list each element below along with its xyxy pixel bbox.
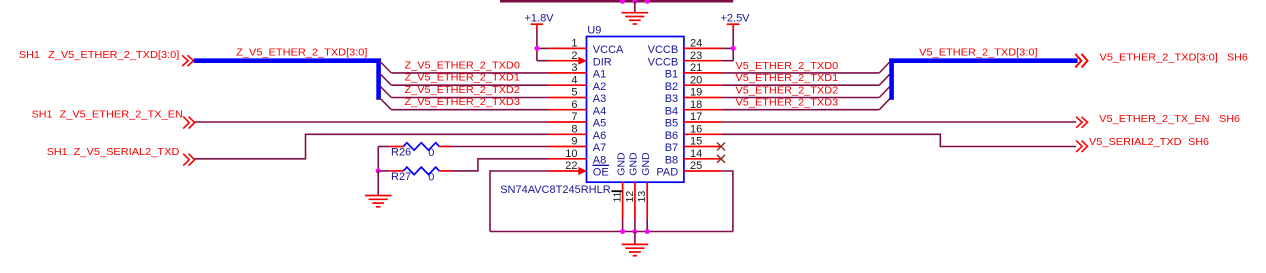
junction dot top-right (645, 0, 650, 4)
bus label Z_V5_ETHER_2_TXD[3:0] (236, 46, 367, 58)
U9 pin 10 A8 (549, 148, 607, 167)
junction dot bottom-left (620, 229, 625, 234)
wire Z_V5_SERIAL2_TXD (195, 134, 549, 159)
wire GND net top (500, 0, 733, 3)
U9 pin 9 A7 (549, 136, 607, 155)
wire R26 left lead (378, 146, 390, 148)
U9 pin 21 B1 (665, 62, 722, 81)
svg-text:B6: B6 (665, 130, 678, 142)
svg-text:A1: A1 (593, 69, 606, 81)
wire +2.5V vertical (732, 30, 734, 61)
wire Z_V5_ETHER_2_TXD2 (bus entry to pin 5) (379, 84, 548, 98)
U9 pin 22 OE (549, 160, 610, 179)
svg-text:8: 8 (571, 123, 577, 135)
junction dot R27 node (376, 168, 381, 173)
op-amp U9 body (IC box) (587, 37, 684, 183)
svg-text:5: 5 (571, 87, 577, 99)
svg-text:B7: B7 (665, 142, 678, 154)
wire R27 left lead (378, 170, 390, 172)
svg-text:12: 12 (624, 191, 636, 203)
svg-text:VCCB: VCCB (648, 56, 679, 68)
junction dot bottom-right (645, 229, 650, 234)
svg-text:A2: A2 (593, 81, 606, 93)
svg-text:SH1: SH1 (47, 146, 68, 158)
svg-text:22: 22 (565, 160, 577, 172)
U9 pin 1 VCCA (549, 38, 625, 57)
wire R27 to pin 10 (452, 159, 549, 171)
bus V5_ETHER_2_TXD[3:0] right horizontal (889, 58, 1077, 63)
svg-text:A5: A5 (593, 118, 606, 130)
svg-text:B2: B2 (665, 81, 678, 93)
junction dot top-left (620, 0, 625, 4)
off-page connector SH1 Z_V5_ETHER_2_TX_EN (32, 109, 195, 129)
junction dot top-middle (632, 0, 637, 4)
svg-text:V5_ETHER_2_TX_EN: V5_ETHER_2_TX_EN (1099, 113, 1209, 125)
bus Z_V5_ETHER_2_TXD[3:0] left horizontal (194, 58, 381, 63)
svg-text:SH6: SH6 (1219, 113, 1240, 125)
bus label V5_ETHER_2_TXD[3:0] right (919, 46, 1037, 58)
svg-text:Z_V5_SERIAL2_TXD: Z_V5_SERIAL2_TXD (74, 146, 180, 158)
svg-text:R27: R27 (391, 171, 411, 183)
wire +1.8V vertical (536, 30, 538, 61)
svg-text:6: 6 (571, 99, 577, 111)
svg-text:R26: R26 (391, 147, 411, 159)
svg-text:+1.8V: +1.8V (524, 12, 554, 24)
U9 pin 12 GND (bottom) (624, 152, 640, 232)
svg-text:V5_SERIAL2_TXD: V5_SERIAL2_TXD (1089, 136, 1182, 148)
svg-text:V5_ETHER_2_TXD2: V5_ETHER_2_TXD2 (736, 84, 839, 96)
wire R26-R27 vertical (377, 147, 379, 172)
svg-text:3: 3 (571, 62, 577, 74)
wire R26 to pin 9 (452, 146, 549, 148)
U9 pin 24 VCCB (648, 38, 722, 57)
svg-text:SH1: SH1 (19, 49, 40, 61)
svg-text:1: 1 (571, 38, 577, 50)
wire ground stem top (634, 1, 636, 12)
svg-text:OE: OE (593, 167, 609, 179)
junction dot +2.5V node (731, 46, 736, 51)
svg-text:SH6: SH6 (1227, 51, 1248, 63)
svg-text:DIR: DIR (593, 56, 612, 68)
junction dot bottom-middle (632, 229, 637, 234)
U9 pin 2 DIR (549, 50, 612, 69)
bus V5_ETHER_2_TXD[3:0] right vertical (889, 58, 894, 99)
svg-text:GND: GND (628, 152, 640, 176)
svg-text:GND: GND (640, 152, 652, 176)
svg-text:10: 10 (565, 148, 577, 160)
U9 pin 20 B2 (665, 74, 722, 93)
svg-text:7: 7 (571, 111, 577, 123)
wire V5_ETHER_2_TXD3 (pin 18 to bus) (721, 97, 891, 110)
svg-text:4: 4 (571, 74, 577, 86)
resistor R26 (390, 143, 452, 159)
svg-text:A4: A4 (593, 105, 606, 117)
wire ground stem bottom (634, 232, 636, 245)
svg-text:B1: B1 (665, 69, 678, 81)
ground symbol top (622, 13, 649, 24)
wire V5_SERIAL2_TXD (pin 16) (721, 134, 1076, 146)
wire ground stem R27 (377, 171, 379, 196)
wire OE to GND (490, 171, 549, 232)
power +1.8V symbol (524, 12, 554, 30)
svg-text:A6: A6 (593, 130, 606, 142)
U9 pin 5 A3 (549, 87, 607, 106)
wire Z_V5_ETHER_2_TXD1 (bus entry to pin 4) (379, 72, 548, 86)
ground symbol bottom (622, 244, 649, 255)
wire GND net bottom (490, 231, 733, 233)
wire +1.8V to pin 2 (537, 60, 549, 62)
off-page connector V5_ETHER_2_TX_EN SH6 (1076, 113, 1240, 128)
svg-text:Z_V5_ETHER_2_TXD[3:0]: Z_V5_ETHER_2_TXD[3:0] (48, 49, 179, 61)
svg-text:Z_V5_ETHER_2_TXD3: Z_V5_ETHER_2_TXD3 (405, 96, 521, 108)
svg-text:V5_ETHER_2_TXD[3:0]: V5_ETHER_2_TXD[3:0] (1100, 51, 1218, 63)
U9 pin 11 GND (bottom) (612, 152, 628, 232)
U9 pin 14 B8 (665, 148, 722, 167)
wire Z_V5_ETHER_2_TXD0 (bus entry to pin 3) (379, 59, 548, 73)
off-page connector V5_SERIAL2_TXD SH6 (1076, 136, 1209, 152)
svg-text:A7: A7 (593, 142, 606, 154)
svg-text:B4: B4 (665, 105, 678, 117)
svg-text:SN74AVC8T245RHLR: SN74AVC8T245RHLR (500, 184, 611, 196)
svg-text:15: 15 (690, 136, 702, 148)
resistor R27 (390, 167, 452, 183)
svg-text:Z_V5_ETHER_2_TXD[3:0]: Z_V5_ETHER_2_TXD[3:0] (236, 46, 367, 58)
U9 reference designator (587, 25, 601, 37)
svg-text:Z_V5_ETHER_2_TXD0: Z_V5_ETHER_2_TXD0 (405, 59, 521, 71)
U9 part number SN74AVC8T245RHLR (500, 184, 611, 196)
svg-text:A3: A3 (593, 93, 606, 105)
svg-text:0: 0 (428, 171, 434, 183)
wire V5_ETHER_2_TXD0 (pin 21 to bus) (721, 60, 891, 73)
svg-text:21: 21 (690, 62, 702, 74)
svg-text:V5_ETHER_2_TXD[3:0]: V5_ETHER_2_TXD[3:0] (919, 46, 1037, 58)
junction dot +1.8V node (534, 46, 539, 51)
svg-text:20: 20 (690, 74, 702, 86)
U9 pin 17 B5 (665, 111, 722, 130)
U9 pin 7 A5 (549, 111, 607, 130)
svg-text:14: 14 (690, 148, 702, 160)
off-page connector V5_ETHER_2_TXD[3:0] SH6 (1075, 51, 1248, 67)
wire +1.8V to pin 1 (537, 47, 549, 49)
svg-text:V5_ETHER_2_TXD0: V5_ETHER_2_TXD0 (736, 60, 839, 72)
svg-text:A8: A8 (593, 154, 606, 166)
U9 pin 19 B3 (665, 87, 722, 106)
U9 pin 8 A6 (549, 123, 607, 142)
no-connect pin 15 (717, 143, 725, 151)
wire V5_ETHER_2_TXD2 (pin 19 to bus) (721, 84, 891, 97)
wire Z_V5_ETHER_2_TXD3 (bus entry to pin 6) (379, 96, 548, 110)
U9 pin 3 A1 (549, 62, 607, 81)
svg-text:V5_ETHER_2_TXD3: V5_ETHER_2_TXD3 (736, 97, 839, 109)
U9 pin 23 VCCB (648, 50, 722, 69)
wire Z_V5_ETHER_2_TX_EN (195, 121, 549, 123)
wire +2.5V to pin 23 (721, 60, 733, 62)
ground symbol at R27 (365, 196, 392, 207)
U9 pin 16 B6 (665, 123, 722, 142)
svg-text:V5_ETHER_2_TXD1: V5_ETHER_2_TXD1 (736, 72, 839, 84)
svg-text:9: 9 (571, 136, 577, 148)
wire V5_ETHER_2_TXD1 (pin 20 to bus) (721, 72, 891, 85)
power +2.5V symbol (720, 12, 750, 30)
svg-text:25: 25 (690, 160, 702, 172)
U9 part number underscore cursor (612, 190, 623, 192)
svg-text:SH6: SH6 (1188, 136, 1209, 148)
svg-text:19: 19 (690, 87, 702, 99)
svg-text:Z_V5_ETHER_2_TXD2: Z_V5_ETHER_2_TXD2 (405, 84, 521, 96)
svg-text:16: 16 (690, 123, 702, 135)
svg-text:PAD: PAD (656, 167, 678, 179)
svg-text:B3: B3 (665, 93, 678, 105)
svg-text:13: 13 (636, 191, 648, 203)
svg-text:11: 11 (612, 191, 624, 202)
U9 pin 6 A4 (549, 99, 607, 118)
svg-text:Z_V5_ETHER_2_TXD1: Z_V5_ETHER_2_TXD1 (405, 72, 521, 84)
svg-text:17: 17 (690, 111, 702, 123)
svg-text:B8: B8 (665, 154, 678, 166)
wire +2.5V to pin 24 (721, 47, 733, 49)
U9 pin 25 PAD (656, 160, 721, 179)
svg-text:VCCA: VCCA (593, 44, 624, 56)
U9 pin 13 GND (bottom) (636, 152, 652, 232)
svg-text:SH1: SH1 (32, 109, 53, 121)
svg-text:+2.5V: +2.5V (720, 12, 750, 24)
wire V5_ETHER_2_TX_EN (pin 17) (721, 121, 1076, 123)
svg-text:Z_V5_ETHER_2_TX_EN: Z_V5_ETHER_2_TX_EN (60, 109, 184, 121)
U9 pin 4 A2 (549, 74, 607, 93)
svg-text:VCCB: VCCB (648, 44, 679, 56)
svg-text:24: 24 (690, 38, 702, 50)
U9 pin 18 B4 (665, 99, 722, 118)
svg-text:B5: B5 (665, 118, 678, 130)
svg-text:23: 23 (690, 50, 702, 62)
off-page connector SH1 Z_V5_SERIAL2_TXD (47, 146, 195, 166)
svg-text:GND: GND (615, 152, 627, 176)
no-connect pin 14 (717, 155, 725, 163)
off-page connector SH1 Z_V5_ETHER_2_TXD[3:0] (19, 49, 194, 66)
U9 pin 15 B7 (665, 136, 722, 155)
svg-text:0: 0 (428, 147, 434, 159)
svg-text:18: 18 (690, 99, 702, 111)
bus Z_V5_ETHER_2_TXD[3:0] left vertical (376, 58, 381, 99)
svg-text:U9: U9 (587, 25, 601, 37)
wire PAD to GND (721, 171, 733, 232)
svg-text:2: 2 (571, 50, 577, 62)
